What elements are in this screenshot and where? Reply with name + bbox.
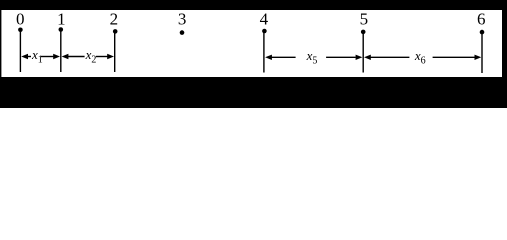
- tick line 6: [481, 32, 483, 73]
- node 5 dot: [361, 30, 366, 35]
- right border: [502, 10, 507, 77]
- left border: [0, 10, 1, 77]
- x1 arrow left shaft: [27, 56, 31, 58]
- bottom black band: [0, 77, 507, 108]
- x6 arrow left head: [364, 55, 371, 60]
- node 1 dot: [59, 27, 64, 32]
- x1 arrow left head: [21, 54, 28, 59]
- svg-text:5: 5: [360, 10, 369, 29]
- x6 arrow right shaft: [433, 56, 475, 58]
- x6 arrow right head: [475, 55, 482, 60]
- tick line 5: [362, 32, 364, 73]
- tick line 2: [114, 31, 116, 72]
- x2 arrow right shaft: [96, 56, 108, 58]
- x2 arrow right head: [107, 54, 114, 59]
- node 0 dot: [18, 28, 23, 33]
- node 4 dot: [262, 29, 267, 34]
- x5 arrow left shaft: [271, 56, 296, 58]
- x1 arrow right shaft: [41, 56, 54, 58]
- node 3 dot: [180, 30, 185, 35]
- tick line 4: [263, 31, 265, 73]
- node 2 dot: [113, 29, 118, 34]
- x2 arrow left head: [62, 54, 69, 59]
- svg-text:4: 4: [260, 10, 269, 29]
- top black band: [0, 0, 507, 10]
- svg-text:2: 2: [110, 10, 119, 29]
- tick line 0: [19, 30, 21, 72]
- svg-text:3: 3: [178, 10, 187, 29]
- tick line 1: [60, 30, 62, 73]
- x5 arrow right shaft: [326, 56, 356, 58]
- x6 arrow left shaft: [370, 56, 410, 58]
- x5 arrow left head: [265, 55, 272, 60]
- x5 arrow right head: [356, 55, 363, 60]
- x2 arrow left shaft: [67, 56, 84, 58]
- svg-text:0: 0: [16, 10, 25, 29]
- svg-text:1: 1: [57, 10, 66, 29]
- node 6 dot: [480, 30, 485, 35]
- svg-text:6: 6: [477, 10, 486, 29]
- x1 arrow right head: [53, 54, 60, 59]
